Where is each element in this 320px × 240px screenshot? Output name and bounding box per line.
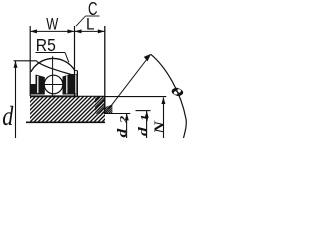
dimension line L xyxy=(75,30,105,32)
arrow d2 up xyxy=(125,113,129,120)
bearing spherical outer ring arc xyxy=(31,58,75,71)
ring top right corner xyxy=(74,70,77,72)
shaft shoulder surface xyxy=(78,95,106,97)
C leader line xyxy=(76,16,86,26)
dimension line d2 xyxy=(126,113,128,138)
svg-text:W: W xyxy=(46,15,58,34)
hatched wedge at step corner xyxy=(68,0,226,130)
shared extension line W/L xyxy=(74,26,76,71)
outer ring right face xyxy=(74,71,76,96)
dimension line d1 xyxy=(146,111,148,138)
arrow d1 up xyxy=(145,111,149,118)
ball horizontal centerline xyxy=(42,84,67,86)
dimension line N xyxy=(163,98,165,139)
arrow W right xyxy=(68,29,75,33)
right ring hatch texture xyxy=(78,70,168,130)
extension line for dimension d2 xyxy=(105,113,131,115)
shaft section hatching xyxy=(0,0,228,130)
left ring section xyxy=(31,75,45,95)
arrow N up xyxy=(161,97,165,104)
bearing left face / W extension line xyxy=(29,26,31,96)
inner ring right face xyxy=(76,71,78,97)
bearing vertical centerline xyxy=(52,56,54,96)
svg-text:N: N xyxy=(151,120,167,135)
extension line for dimension N xyxy=(105,96,167,98)
arrow W left xyxy=(30,29,37,33)
extension line L right / step leg of angle xyxy=(104,26,106,114)
arrow L right xyxy=(98,29,105,33)
shaft seat surface under bearing xyxy=(30,95,78,97)
shaft bottom edge xyxy=(26,121,105,123)
left ring groove slit xyxy=(37,76,39,93)
R5 underline xyxy=(36,52,66,54)
angle theta leg line xyxy=(105,55,151,114)
dimension line W xyxy=(30,30,74,32)
R5 leader line xyxy=(65,53,69,63)
left ring hatch texture xyxy=(48,70,132,130)
arrow L left xyxy=(75,29,82,33)
housing bore edge curve xyxy=(37,61,73,74)
housing top surface / d extension line xyxy=(14,60,37,62)
extension line for dimension d1 xyxy=(136,110,151,112)
ball xyxy=(44,75,63,94)
dimension line d xyxy=(15,61,17,138)
shaft step face xyxy=(104,96,106,114)
dense hatch patch left of shaft step xyxy=(62,0,226,130)
arrow d up xyxy=(14,61,18,68)
right ring section xyxy=(63,74,78,95)
C underline xyxy=(86,15,100,17)
arrow on theta leg xyxy=(144,54,151,62)
theta arc xyxy=(151,54,186,138)
svg-text:d: d xyxy=(2,102,14,132)
gap between outer and inner ring faces xyxy=(75,75,77,94)
svg-text:R5: R5 xyxy=(36,35,56,55)
right ring groove slit xyxy=(66,76,68,94)
